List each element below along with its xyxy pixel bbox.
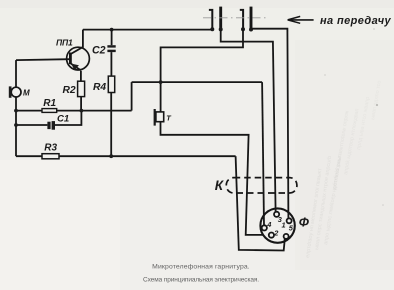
resistor R4 bbox=[108, 76, 114, 92]
transistor Q1 (ПП1) circle bbox=[67, 47, 90, 70]
switch contact R2 thick pin bbox=[250, 7, 253, 30]
svg-text:4: 4 bbox=[266, 220, 271, 229]
wire: C1 line left bbox=[16, 124, 47, 126]
faint bleed-through artifacts bbox=[305, 80, 383, 258]
wire: R3 line right bbox=[59, 155, 236, 157]
svg-text:R2: R2 bbox=[63, 85, 76, 96]
resistor R2 bbox=[78, 81, 85, 96]
paper specks bbox=[324, 28, 384, 206]
junction dot rail/R1 bbox=[14, 109, 18, 113]
wire: switch R2 pin to DIN pin1 bbox=[251, 29, 288, 219]
microphone M circle bbox=[11, 87, 21, 97]
wire: R3 line left bbox=[16, 155, 42, 157]
wire: C2 to R4 bbox=[110, 52, 112, 76]
wire: top supply rail (collector to switch pin) bbox=[83, 29, 212, 31]
wire: C1 line right + up to junction bbox=[55, 111, 81, 125]
connector pin 1 bbox=[287, 218, 292, 223]
wire: emitter to R2 bbox=[80, 71, 82, 81]
wire: R4 bottom to R3 line bbox=[110, 93, 112, 157]
transistor collector diagonal bbox=[71, 47, 83, 54]
svg-text:Ф: Ф bbox=[299, 215, 310, 230]
switch linkage dash-dot line bbox=[203, 17, 268, 19]
svg-text:М: М bbox=[23, 89, 30, 98]
switch contact L2 hook pin bbox=[240, 10, 243, 29]
svg-text:R4: R4 bbox=[93, 82, 106, 93]
junction dot R1/R2/C1 bbox=[80, 109, 84, 113]
wire: left rail lower bbox=[15, 97, 17, 156]
earphone T box bbox=[156, 112, 164, 122]
switch contact dots bbox=[210, 27, 214, 31]
capacitor C1 plate right bbox=[52, 121, 55, 130]
capacitor C2 plate bottom bbox=[107, 50, 115, 52]
svg-text:R1: R1 bbox=[43, 98, 56, 109]
junction dot T/bias line bbox=[159, 80, 163, 84]
svg-text:С2: С2 bbox=[92, 45, 106, 57]
wire: left rail upper bbox=[15, 60, 17, 87]
wire: R2 bottom bbox=[80, 97, 82, 111]
microphone M bar bbox=[9, 86, 12, 97]
capacitor C2 plate top bbox=[107, 45, 115, 47]
wire: R1 line right bbox=[57, 110, 132, 112]
svg-text:на передачу: на передачу bbox=[320, 15, 392, 27]
transistor emitter arrow (PNP) bbox=[71, 64, 79, 71]
cable K dashed oval bbox=[226, 178, 297, 193]
switch contact L1 hook pin bbox=[209, 10, 212, 29]
capacitor C1 plate left bbox=[47, 122, 50, 129]
svg-text:Схема принципиальная электриче: Схема принципиальная электрическая. bbox=[143, 277, 259, 284]
connector pin 4 bbox=[262, 225, 267, 230]
svg-text:2: 2 bbox=[273, 229, 279, 238]
wire: switch R1 pin to DIN pin3 bbox=[221, 29, 276, 211]
resistor R3 bbox=[42, 154, 59, 159]
junction dot R4/R3 bbox=[109, 154, 113, 158]
connector pin 5 bbox=[284, 234, 289, 239]
junction dot rail/C1 bbox=[14, 123, 18, 127]
arrow to transmitter bbox=[289, 19, 314, 21]
wire: collector lead vertical bbox=[82, 30, 84, 48]
wire: loop end up to DIN pin5 bbox=[283, 239, 286, 243]
earphone T bar bbox=[154, 109, 156, 126]
wire: switch L2 pin to earphone T bbox=[161, 29, 243, 112]
transistor emitter diagonal bbox=[71, 64, 81, 71]
wire: R1 line left bbox=[16, 110, 42, 112]
connector Ф circle bbox=[260, 208, 294, 242]
svg-text:ПП1: ПП1 bbox=[56, 37, 73, 47]
svg-text:R3: R3 bbox=[44, 142, 57, 153]
wire: base lead bbox=[16, 58, 69, 61]
svg-text:С1: С1 bbox=[57, 113, 69, 124]
wire: T bottom to DIN pin2 bbox=[161, 122, 264, 235]
connector pin 2 bbox=[269, 233, 274, 238]
wire: riser to bias line bbox=[131, 82, 133, 111]
wire: C2 top lead bbox=[111, 30, 113, 46]
switch contact R1 thick pin bbox=[219, 7, 222, 30]
wire: R3 loop down right up to pin5 bbox=[236, 156, 285, 250]
wire: bias line y82 bbox=[132, 81, 263, 83]
transistor base bar bbox=[69, 53, 72, 65]
resistor R1 bbox=[42, 109, 57, 113]
svg-text:1: 1 bbox=[282, 221, 286, 230]
wire: bias line down to DIN pin4 bbox=[262, 82, 264, 225]
connector pin 3 bbox=[274, 212, 279, 217]
svg-text:Микротелефонная гарнитура.: Микротелефонная гарнитура. bbox=[152, 264, 250, 271]
junction dot C2 top bbox=[110, 28, 114, 32]
